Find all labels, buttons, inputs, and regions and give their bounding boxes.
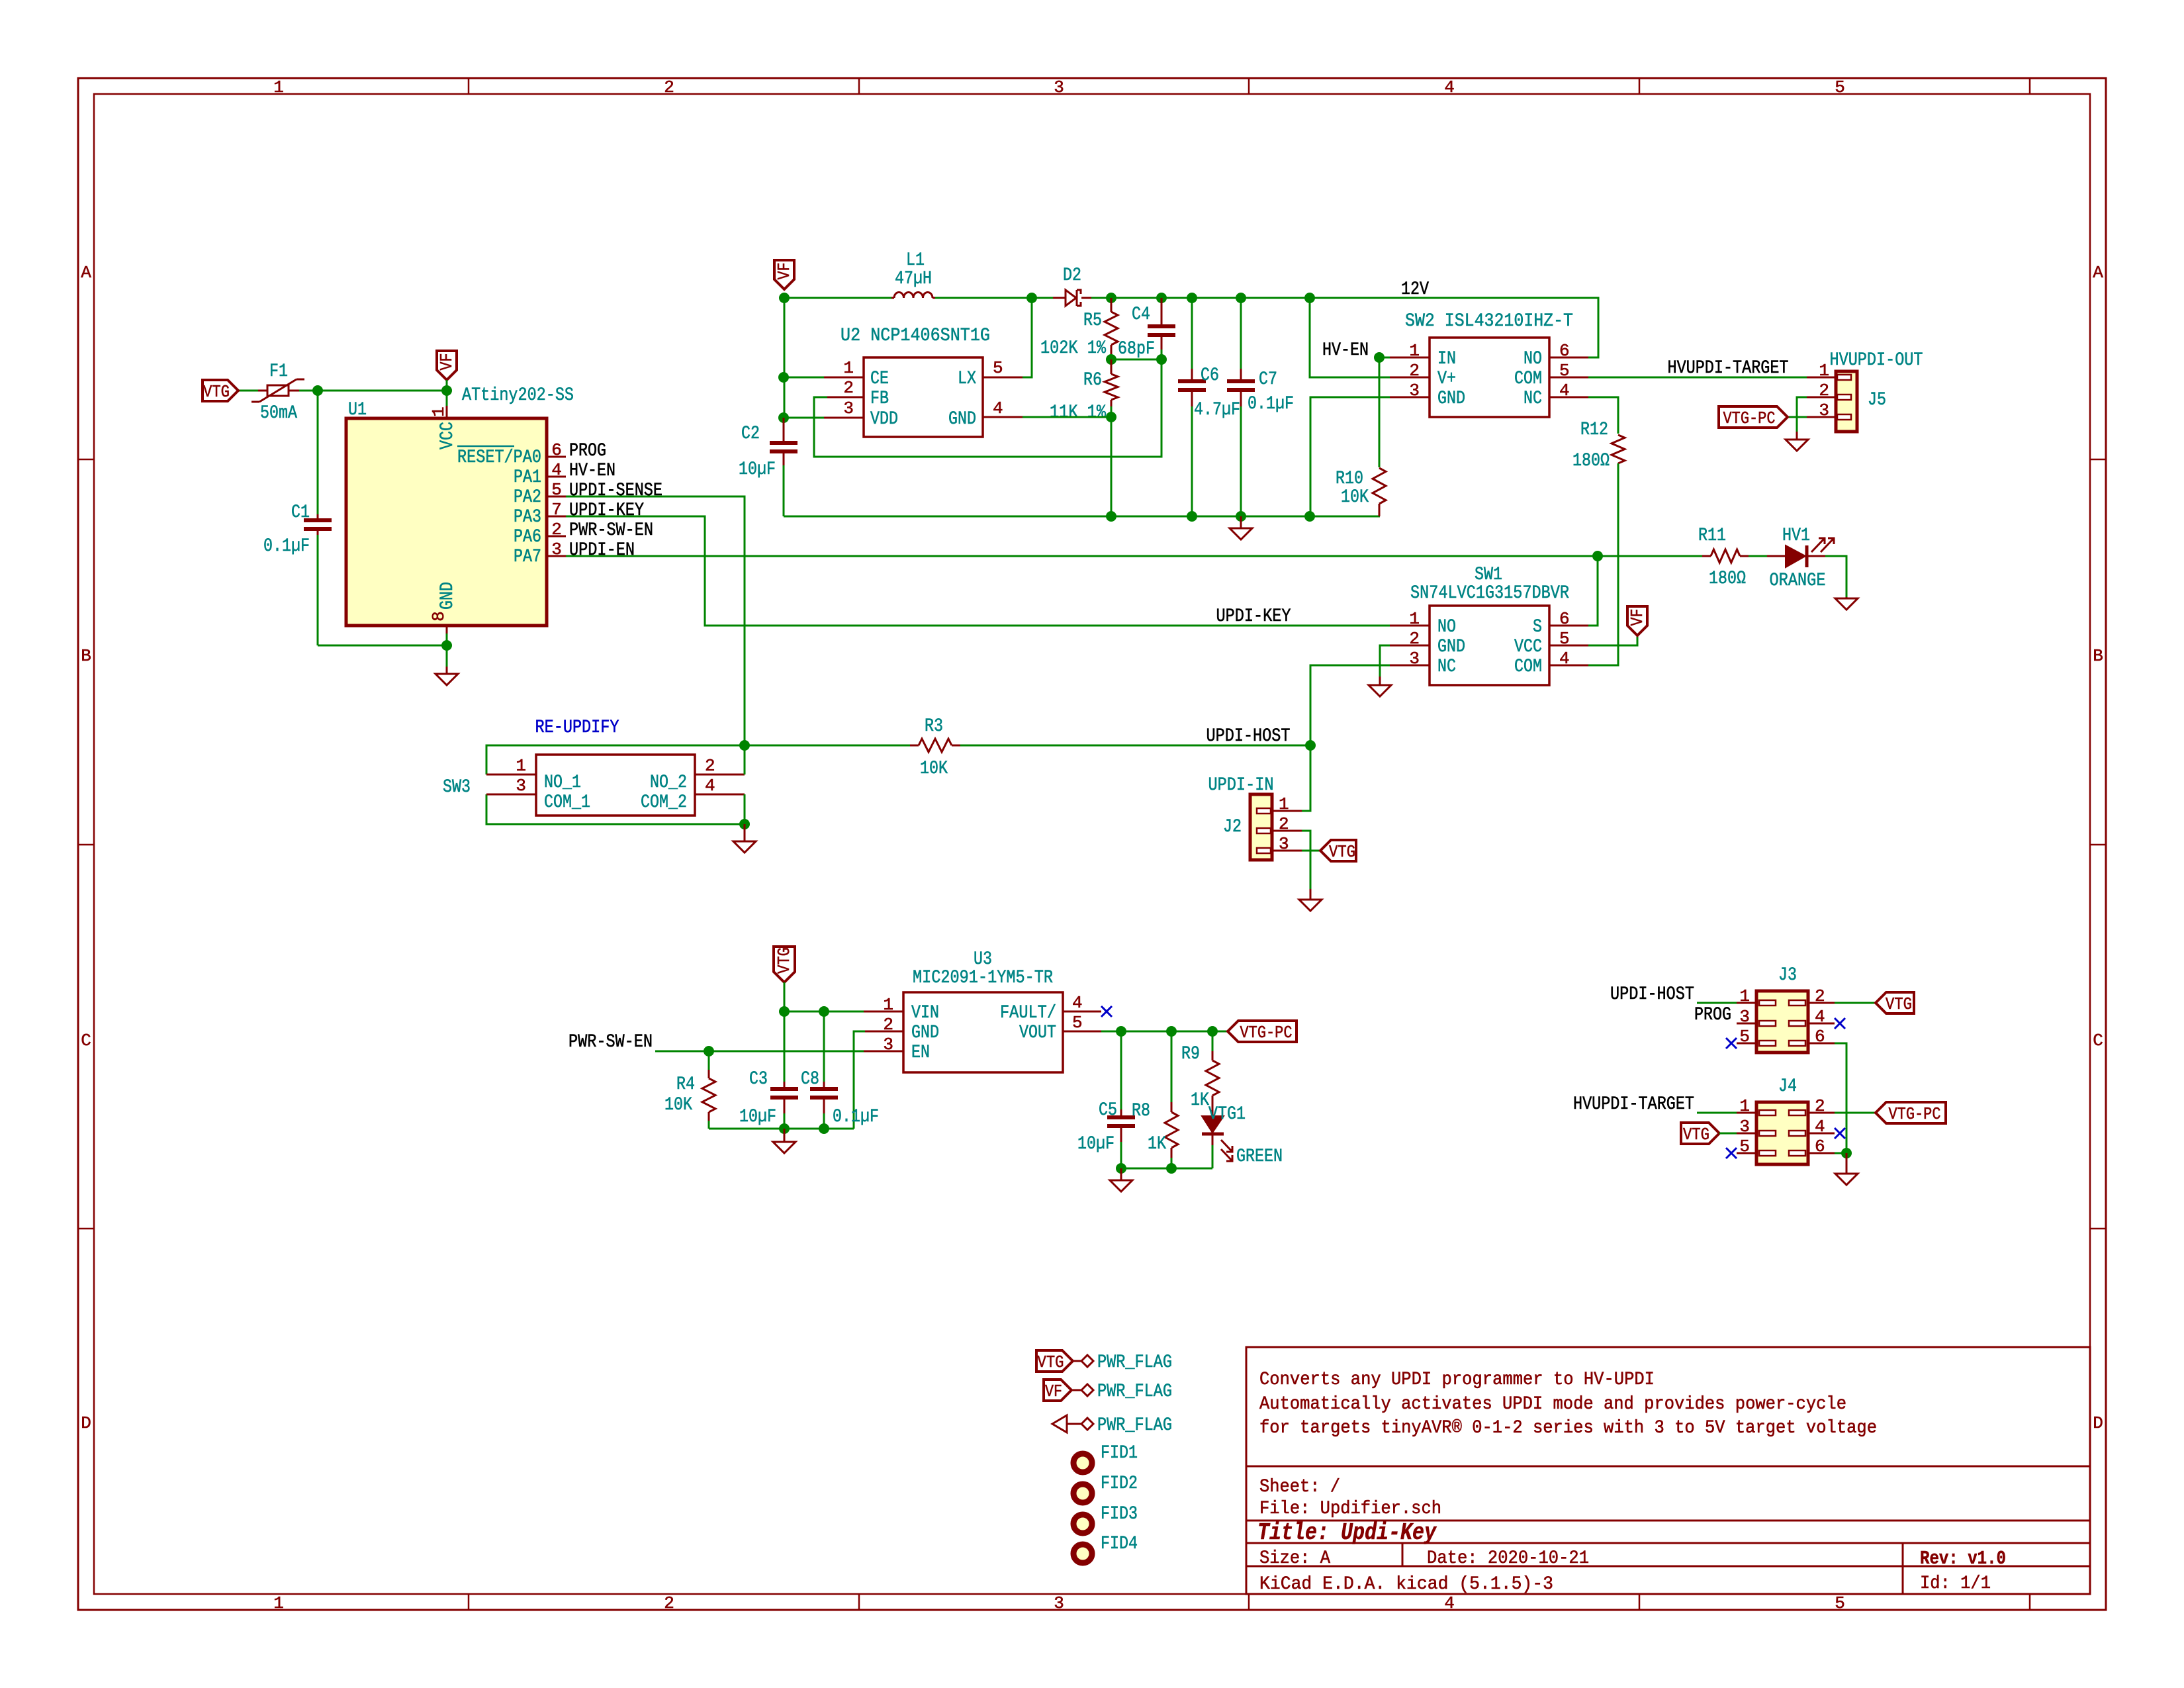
junction R8 bottom bbox=[1166, 1163, 1177, 1174]
svg-text:1: 1 bbox=[429, 406, 449, 417]
LED arrows bbox=[1811, 538, 1834, 552]
svg-text:VDD: VDD bbox=[870, 409, 898, 430]
power flag PWR_FLAG VTG bbox=[1036, 1350, 1073, 1372]
svg-text:GND: GND bbox=[1437, 637, 1465, 657]
svg-text:VOUT: VOUT bbox=[1019, 1023, 1056, 1043]
connector J2 UPDI-IN body bbox=[1250, 794, 1272, 860]
wire R5R6 to C4 bbox=[1111, 359, 1161, 361]
svg-text:R9: R9 bbox=[1181, 1044, 1200, 1064]
inductor L1 bbox=[894, 293, 933, 299]
junction VF node bbox=[441, 385, 452, 396]
SW1 pin5 VCC to VF bbox=[1549, 645, 1588, 647]
junction D2 out bbox=[1106, 293, 1116, 303]
svg-text:10K: 10K bbox=[1341, 487, 1369, 508]
junction J4 pin6 gnd bbox=[1841, 1148, 1852, 1158]
fiducial FID4 bbox=[1073, 1544, 1092, 1563]
fiducial FID2 bbox=[1073, 1484, 1092, 1503]
svg-text:5: 5 bbox=[1835, 77, 1845, 97]
junction R4 bbox=[704, 1046, 714, 1056]
connector J5 HVUPDI-OUT body bbox=[1836, 371, 1857, 432]
wire to J2 pin1 bbox=[1302, 745, 1310, 811]
power flag PWR_FLAG unconnected bbox=[1052, 1415, 1067, 1432]
fiducial FID1 bbox=[1073, 1454, 1092, 1472]
IC U2 NCP1406 body bbox=[864, 357, 983, 437]
junction SW3 gnd node bbox=[739, 819, 750, 829]
svg-text:PA2: PA2 bbox=[514, 487, 541, 508]
J3 pin2 to VTG bbox=[1808, 1002, 1835, 1004]
svg-text:11K 1%: 11K 1% bbox=[1050, 402, 1106, 423]
svg-text:HV1: HV1 bbox=[1782, 526, 1810, 546]
svg-text:A: A bbox=[2093, 263, 2103, 283]
svg-text:NC: NC bbox=[1524, 389, 1542, 409]
svg-text:102K 1%: 102K 1% bbox=[1040, 338, 1106, 359]
svg-text:6: 6 bbox=[551, 440, 562, 460]
fuse F1 bbox=[258, 390, 267, 392]
SW3 pin2 NO_2 wire bbox=[695, 774, 745, 776]
svg-text:B: B bbox=[2093, 646, 2103, 666]
svg-text:VCC: VCC bbox=[437, 422, 458, 449]
svg-text:4: 4 bbox=[1072, 993, 1083, 1013]
svg-text:GND: GND bbox=[948, 409, 976, 430]
svg-text:HV-EN: HV-EN bbox=[1322, 340, 1369, 361]
svg-text:MIC2091-1YM5-TR: MIC2091-1YM5-TR bbox=[913, 968, 1053, 988]
svg-text:C: C bbox=[2093, 1031, 2103, 1051]
svg-text:10µF: 10µF bbox=[739, 1107, 776, 1127]
svg-text:IN: IN bbox=[1437, 349, 1456, 369]
junction HV-EN bbox=[1374, 352, 1385, 363]
svg-text:NO_2: NO_2 bbox=[650, 773, 687, 793]
svg-text:VTG: VTG bbox=[1683, 1125, 1709, 1145]
wire SW3 COM loop bbox=[486, 794, 745, 824]
svg-text:FID3: FID3 bbox=[1101, 1504, 1138, 1524]
svg-text:GND: GND bbox=[911, 1023, 939, 1043]
resistor R8 bbox=[1171, 1031, 1173, 1102]
U3 pin5 VOUT wire bbox=[1063, 1031, 1101, 1033]
SW2 pin4 NC to R12 bbox=[1549, 397, 1588, 399]
svg-text:Rev: v1.0: Rev: v1.0 bbox=[1920, 1548, 2006, 1570]
svg-text:1K: 1K bbox=[1191, 1090, 1209, 1111]
svg-text:Date: 2020-10-21: Date: 2020-10-21 bbox=[1427, 1548, 1589, 1569]
svg-text:C: C bbox=[81, 1031, 91, 1051]
U3 pin4 FAULT no-connect bbox=[1063, 1011, 1101, 1013]
svg-text:3: 3 bbox=[516, 776, 526, 796]
U1 pin 8 stub bbox=[446, 626, 448, 633]
capacitor C7 bbox=[1236, 293, 1246, 303]
svg-text:R8: R8 bbox=[1132, 1101, 1150, 1121]
svg-text:C8: C8 bbox=[801, 1069, 819, 1090]
svg-text:4: 4 bbox=[551, 460, 562, 480]
junction C8 bottom bbox=[819, 1123, 829, 1134]
svg-text:VTG-PC: VTG-PC bbox=[1240, 1023, 1293, 1043]
power flag VF at boost input bbox=[774, 260, 794, 289]
svg-text:U3: U3 bbox=[974, 949, 992, 970]
resistor R5 bbox=[1111, 298, 1113, 312]
resistor R4 bbox=[708, 1051, 710, 1070]
svg-text:UPDI-IN: UPDI-IN bbox=[1208, 775, 1274, 796]
J2 pin3 to VTG bbox=[1272, 850, 1302, 852]
svg-text:RE-UPDIFY: RE-UPDIFY bbox=[535, 718, 619, 738]
svg-text:VTG-PC: VTG-PC bbox=[1723, 408, 1776, 428]
svg-text:R12: R12 bbox=[1580, 420, 1608, 440]
junction VDD C2 bbox=[778, 412, 789, 423]
SW1 pin1 NO stub bbox=[1390, 625, 1430, 627]
svg-text:R3: R3 bbox=[925, 716, 943, 737]
svg-text:D: D bbox=[2093, 1413, 2103, 1433]
svg-text:for targets tinyAVR® 0-1-2 ser: for targets tinyAVR® 0-1-2 series with 3… bbox=[1259, 1418, 1877, 1438]
J5 pin3 to VTG-PC bbox=[1807, 416, 1836, 418]
svg-text:B: B bbox=[81, 646, 91, 666]
junction CE bbox=[778, 372, 789, 383]
wire HV-EN pin bbox=[1379, 357, 1390, 359]
svg-text:GREEN: GREEN bbox=[1236, 1147, 1283, 1167]
J4 pin4 no-connect bbox=[1808, 1133, 1835, 1135]
svg-text:VF: VF bbox=[437, 353, 457, 371]
svg-text:PWR_FLAG: PWR_FLAG bbox=[1097, 1415, 1172, 1436]
svg-text:4: 4 bbox=[705, 776, 715, 796]
junction C5 bbox=[1116, 1026, 1126, 1037]
J5 pin2 to ground bbox=[1807, 397, 1836, 399]
global label VTG-PC at VOUT bbox=[1228, 1021, 1297, 1042]
U2 pin 1 CE bbox=[824, 377, 864, 379]
svg-text:C4: C4 bbox=[1132, 305, 1150, 325]
svg-text:NC: NC bbox=[1437, 657, 1456, 677]
resistor R9 bbox=[1212, 1031, 1214, 1051]
svg-text:D2: D2 bbox=[1063, 265, 1081, 286]
SW1 pin2 GND to ground bbox=[1390, 645, 1430, 647]
resistor R3 bbox=[910, 745, 919, 747]
svg-text:10µF: 10µF bbox=[739, 459, 776, 480]
svg-text:HVUPDI-TARGET: HVUPDI-TARGET bbox=[1573, 1094, 1694, 1115]
U1 pin 6 RESET/PA0 bbox=[547, 456, 566, 458]
junction UPDI-HOST J2 bbox=[1305, 740, 1316, 751]
U2 pin 3 VDD bbox=[824, 417, 864, 419]
svg-text:R10: R10 bbox=[1336, 469, 1363, 489]
global label VTG (left power input) bbox=[203, 380, 238, 401]
wire R6 to bottom rail bbox=[1111, 417, 1113, 516]
ground below U1 bbox=[446, 645, 448, 667]
svg-text:2: 2 bbox=[843, 378, 854, 398]
junction R6 GND wire bbox=[1106, 412, 1116, 422]
svg-text:UPDI-SENSE: UPDI-SENSE bbox=[569, 481, 662, 501]
junction UPDI-SENSE R3 node bbox=[739, 740, 750, 751]
svg-text:GND: GND bbox=[437, 582, 458, 610]
svg-text:S: S bbox=[1533, 617, 1542, 637]
svg-text:VTG: VTG bbox=[1886, 994, 1912, 1014]
svg-text:FID2: FID2 bbox=[1101, 1474, 1138, 1494]
wire R11 to HV1 bbox=[1749, 555, 1767, 557]
svg-text:F1: F1 bbox=[269, 361, 288, 382]
op-amp U1 ATtiny202-SS body bbox=[346, 418, 547, 626]
U3 pin3 EN wire PWR-SW-EN bbox=[864, 1051, 903, 1053]
svg-text:10K: 10K bbox=[664, 1095, 692, 1115]
switch SW3 body bbox=[536, 755, 695, 816]
svg-text:Converts any UPDI programmer t: Converts any UPDI programmer to HV-UPDI bbox=[1259, 1370, 1655, 1390]
svg-text:UPDI-EN: UPDI-EN bbox=[569, 540, 635, 561]
wire UPDI-SENSE from PA2 bbox=[566, 496, 745, 745]
diode D2 schottky bbox=[1053, 297, 1066, 299]
svg-text:R4: R4 bbox=[676, 1074, 695, 1095]
SW2 pin6 NO stub bbox=[1549, 357, 1588, 359]
wire HVUPDI-TARGET to J4 pin1 bbox=[1697, 1112, 1737, 1114]
capacitor C2 bbox=[783, 418, 785, 443]
svg-text:0.1µF: 0.1µF bbox=[833, 1107, 879, 1127]
svg-text:UPDI-KEY: UPDI-KEY bbox=[1216, 606, 1291, 627]
wire S pin up bbox=[1588, 556, 1598, 626]
svg-text:1: 1 bbox=[843, 358, 854, 378]
wire R12 to SW1 COM bbox=[1588, 463, 1618, 665]
svg-text:VCC: VCC bbox=[1514, 637, 1542, 657]
junction C3 bottom bbox=[779, 1123, 790, 1134]
power flag VF at SW1 bbox=[1627, 606, 1647, 635]
wire VTG to VIN bbox=[784, 982, 864, 1011]
svg-text:COM_2: COM_2 bbox=[641, 792, 687, 813]
svg-text:1: 1 bbox=[1409, 341, 1420, 361]
capacitor C1 bbox=[304, 520, 332, 529]
U2 pin 4 GND bbox=[983, 416, 1023, 418]
svg-text:12V: 12V bbox=[1401, 279, 1429, 300]
U1 pin 2 PA6 bbox=[547, 536, 566, 538]
wire 12V to SW2 V+ bbox=[1310, 298, 1390, 377]
svg-text:CE: CE bbox=[870, 369, 889, 389]
svg-text:D: D bbox=[81, 1413, 91, 1433]
svg-text:3: 3 bbox=[843, 399, 854, 418]
title block bbox=[1246, 1347, 2090, 1594]
global label VTG-PC at J5 bbox=[1719, 406, 1788, 428]
svg-text:Automatically activates UPDI m: Automatically activates UPDI mode and pr… bbox=[1259, 1394, 1846, 1415]
svg-text:J5: J5 bbox=[1868, 390, 1886, 410]
wire LX up bbox=[1023, 298, 1032, 377]
J4 pin6 to ground bbox=[1808, 1152, 1835, 1154]
svg-text:VTG-PC: VTG-PC bbox=[1889, 1104, 1941, 1124]
wire VF down to CE/VDD bbox=[784, 298, 786, 418]
label PROG at J3 pin3 bbox=[1737, 1023, 1756, 1025]
connector J3 body bbox=[1756, 991, 1808, 1053]
J4 pin3 to VTG bbox=[1681, 1123, 1719, 1144]
junction VIN C3 bbox=[779, 1006, 790, 1017]
junction C5 bottom bbox=[1116, 1163, 1126, 1174]
svg-text:PWR_FLAG: PWR_FLAG bbox=[1097, 1382, 1172, 1402]
svg-text:1: 1 bbox=[1739, 986, 1750, 1006]
svg-text:0.1µF: 0.1µF bbox=[263, 536, 310, 557]
svg-text:R6: R6 bbox=[1083, 370, 1102, 391]
svg-text:1K: 1K bbox=[1148, 1134, 1166, 1154]
svg-text:1: 1 bbox=[1279, 794, 1289, 814]
resistor R11 bbox=[1598, 555, 1702, 557]
svg-text:COM: COM bbox=[1514, 369, 1542, 389]
svg-text:4: 4 bbox=[1559, 649, 1570, 669]
svg-text:PWR_FLAG: PWR_FLAG bbox=[1097, 1352, 1172, 1373]
junction UPDI-EN to S bbox=[1592, 551, 1603, 561]
svg-text:4: 4 bbox=[993, 399, 1003, 418]
LED VTG1 green bbox=[1212, 1104, 1214, 1116]
svg-text:C3: C3 bbox=[749, 1069, 768, 1090]
capacitor C3 bbox=[784, 1011, 786, 1082]
svg-text:COM_1: COM_1 bbox=[544, 792, 590, 813]
svg-text:C1: C1 bbox=[291, 502, 310, 523]
svg-text:KiCad E.D.A. kicad (5.1.5)-3: KiCad E.D.A. kicad (5.1.5)-3 bbox=[1259, 1574, 1553, 1595]
svg-text:LX: LX bbox=[958, 369, 976, 389]
wire 12V rail bbox=[784, 297, 891, 299]
wire LED to ground bbox=[1825, 556, 1846, 597]
svg-text:SW1: SW1 bbox=[1475, 565, 1502, 585]
wire bottom C3 C8 rail bbox=[709, 1128, 854, 1130]
wire SW3 NO loop bbox=[486, 745, 745, 774]
wire GND bottom rail bbox=[784, 516, 1380, 518]
svg-text:2: 2 bbox=[551, 520, 562, 539]
svg-text:68pF: 68pF bbox=[1118, 339, 1155, 359]
svg-text:4: 4 bbox=[1444, 1593, 1455, 1613]
svg-text:R11: R11 bbox=[1698, 526, 1726, 546]
svg-text:FAULT/: FAULT/ bbox=[1000, 1003, 1056, 1023]
svg-text:Size: A: Size: A bbox=[1259, 1548, 1330, 1569]
svg-text:2: 2 bbox=[1409, 361, 1420, 381]
power flag PWR_FLAG VF bbox=[1044, 1380, 1071, 1401]
capacitor C5 bbox=[1120, 1031, 1122, 1109]
svg-text:GND: GND bbox=[1437, 389, 1465, 409]
svg-text:C7: C7 bbox=[1259, 369, 1277, 390]
capacitor C4 bbox=[1156, 293, 1167, 303]
IC U3 MIC2091 body bbox=[903, 992, 1063, 1072]
svg-text:ATtiny202-SS: ATtiny202-SS bbox=[462, 385, 574, 406]
resistor R12 bbox=[1612, 435, 1625, 463]
overline on RESET bbox=[457, 445, 514, 447]
analog switch SW2 ISL43210IHZ-T body bbox=[1430, 338, 1549, 417]
svg-text:3: 3 bbox=[1409, 381, 1420, 400]
SW1 pin3 NC to UPDI-HOST bbox=[1390, 665, 1430, 667]
wire HV-EN to R10 bbox=[1379, 357, 1381, 467]
svg-text:1: 1 bbox=[516, 756, 526, 776]
svg-text:2: 2 bbox=[664, 77, 674, 97]
wire UPDI-KEY from PA3 bbox=[566, 516, 1390, 626]
svg-text:C6: C6 bbox=[1201, 365, 1219, 386]
svg-text:50mA: 50mA bbox=[260, 403, 297, 424]
svg-text:V+: V+ bbox=[1437, 369, 1456, 389]
U1 pin 4 PA1 bbox=[547, 476, 566, 478]
svg-text:3: 3 bbox=[1054, 1593, 1064, 1613]
J3 pin6 wire down to J4 bbox=[1808, 1043, 1835, 1045]
svg-text:VF: VF bbox=[1045, 1382, 1062, 1401]
svg-text:C5: C5 bbox=[1099, 1100, 1117, 1121]
U2 pin 2 FB bbox=[827, 397, 864, 399]
junction U1 GND bbox=[441, 640, 452, 651]
junction node F1-C1 bbox=[312, 385, 323, 396]
svg-text:2: 2 bbox=[664, 1593, 674, 1613]
svg-text:5: 5 bbox=[551, 480, 562, 500]
svg-text:EN: EN bbox=[911, 1043, 930, 1063]
svg-text:1: 1 bbox=[1739, 1096, 1750, 1116]
J3 pin5 no-connect bbox=[1737, 1043, 1756, 1045]
SW3 pin4 COM_2 wire bbox=[695, 794, 745, 796]
svg-text:7: 7 bbox=[551, 500, 562, 520]
svg-text:NO: NO bbox=[1524, 349, 1542, 369]
connector J4 body bbox=[1756, 1102, 1808, 1164]
svg-text:U1: U1 bbox=[348, 400, 367, 420]
svg-text:SW2 ISL43210IHZ-T: SW2 ISL43210IHZ-T bbox=[1405, 311, 1573, 332]
svg-text:HV-EN: HV-EN bbox=[569, 461, 615, 481]
J2 pin2 to ground bbox=[1272, 830, 1302, 832]
SW2 pin5 COM - HVUPDI-TARGET wire bbox=[1549, 377, 1588, 379]
svg-text:HVUPDI-OUT: HVUPDI-OUT bbox=[1830, 350, 1923, 371]
svg-text:Sheet: /: Sheet: / bbox=[1259, 1477, 1340, 1497]
svg-text:UPDI-KEY: UPDI-KEY bbox=[569, 500, 644, 521]
U1 pin 3 PA7 bbox=[547, 555, 566, 557]
svg-text:ORANGE: ORANGE bbox=[1770, 571, 1826, 591]
wire R3 row bbox=[745, 745, 910, 747]
svg-text:PWR-SW-EN: PWR-SW-EN bbox=[569, 520, 653, 541]
svg-text:U2 NCP1406SNT1G: U2 NCP1406SNT1G bbox=[841, 326, 990, 346]
capacitor C6 bbox=[1187, 293, 1197, 303]
svg-text:5: 5 bbox=[1835, 1593, 1845, 1613]
capacitor C8 bbox=[823, 1011, 825, 1082]
ground below SW3 bbox=[733, 824, 756, 853]
svg-text:J3: J3 bbox=[1778, 965, 1797, 986]
svg-text:FID1: FID1 bbox=[1101, 1443, 1138, 1464]
svg-text:PA6: PA6 bbox=[514, 527, 541, 547]
svg-text:VF: VF bbox=[1627, 609, 1647, 626]
resistor R10 bbox=[1373, 468, 1386, 504]
svg-text:PWR-SW-EN: PWR-SW-EN bbox=[569, 1032, 653, 1053]
svg-text:180Ω: 180Ω bbox=[1572, 451, 1610, 471]
svg-text:1: 1 bbox=[273, 1593, 284, 1613]
fiducial FID3 bbox=[1073, 1515, 1092, 1533]
svg-text:PROG: PROG bbox=[1694, 1005, 1731, 1025]
junction R5-R6 node bbox=[1106, 354, 1116, 365]
svg-text:Id: 1/1: Id: 1/1 bbox=[1920, 1573, 1991, 1594]
J3 pin4 no-connect bbox=[1808, 1023, 1835, 1025]
J4 pin2 to VTG-PC bbox=[1808, 1112, 1835, 1114]
junction R6 rail bbox=[1106, 511, 1116, 522]
svg-text:PA3: PA3 bbox=[514, 507, 541, 528]
wire VTG to F1 to VF node bbox=[238, 390, 447, 392]
ground below C7 bbox=[1230, 516, 1252, 539]
svg-text:COM: COM bbox=[1514, 657, 1542, 677]
svg-text:RESET/PA0: RESET/PA0 bbox=[457, 447, 541, 468]
U1 pin 5 PA2 bbox=[547, 496, 566, 498]
U1 pin 7 PA3 bbox=[547, 516, 566, 518]
power flag VF at U1 VCC bbox=[437, 351, 457, 380]
wire R3 to UPDI-HOST node bbox=[960, 745, 1310, 747]
svg-text:180Ω: 180Ω bbox=[1709, 569, 1746, 589]
junction R8 bbox=[1166, 1026, 1177, 1037]
svg-text:5: 5 bbox=[1072, 1013, 1083, 1033]
svg-text:R5: R5 bbox=[1083, 310, 1102, 331]
wire LED bottom rail bbox=[1121, 1168, 1212, 1170]
svg-text:VTG: VTG bbox=[1038, 1352, 1064, 1372]
svg-text:Title: Updi-Key: Title: Updi-Key bbox=[1257, 1519, 1437, 1546]
svg-text:UPDI-HOST: UPDI-HOST bbox=[1610, 984, 1694, 1005]
svg-text:NO_1: NO_1 bbox=[544, 773, 581, 793]
junction C4 bottom bbox=[1156, 354, 1167, 365]
svg-text:0.1µF: 0.1µF bbox=[1248, 394, 1294, 414]
junction V+ rail bbox=[1304, 293, 1315, 303]
svg-text:VTG: VTG bbox=[774, 947, 794, 974]
global label VTG at U3 bbox=[774, 947, 795, 982]
svg-text:1: 1 bbox=[1819, 361, 1829, 381]
svg-text:File: Updifier.sch: File: Updifier.sch bbox=[1259, 1499, 1441, 1519]
svg-text:3: 3 bbox=[1054, 77, 1064, 97]
junction VF 12V rail bbox=[779, 293, 790, 303]
svg-text:1: 1 bbox=[273, 77, 284, 97]
svg-text:SN74LVC1G3157DBVR: SN74LVC1G3157DBVR bbox=[1410, 583, 1569, 604]
junction VIN C8 bbox=[819, 1006, 829, 1017]
svg-text:PA1: PA1 bbox=[514, 467, 541, 488]
svg-text:NO: NO bbox=[1437, 617, 1456, 637]
junction LX node bbox=[1026, 293, 1037, 303]
svg-text:J4: J4 bbox=[1778, 1076, 1797, 1097]
svg-text:1: 1 bbox=[883, 995, 893, 1015]
ground below C5 bbox=[1110, 1168, 1132, 1192]
resistor R6 bbox=[1111, 359, 1113, 374]
